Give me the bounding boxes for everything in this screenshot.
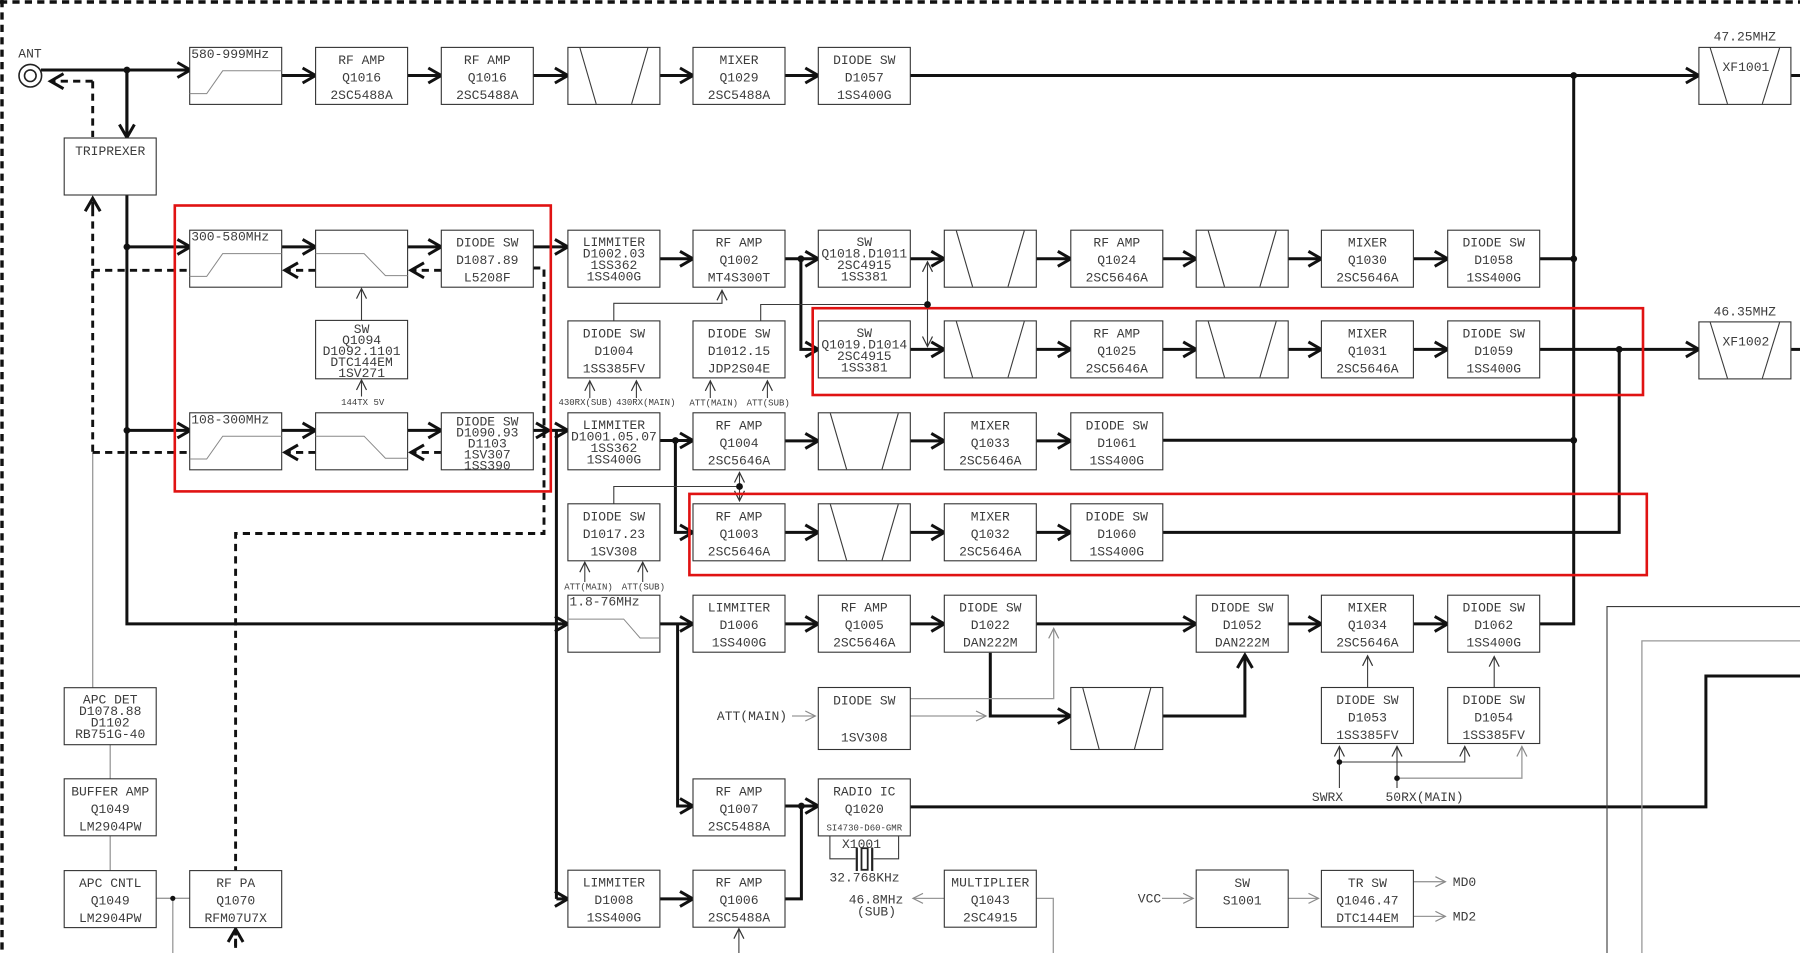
wire arrow down into TRIPREXER top: [125, 70, 128, 138]
wire BPF to MIXER Q1030: [1288, 257, 1321, 260]
wire dashed ANT return with arrow into ANT: [51, 80, 93, 83]
wire into LIMMITER D1008: [556, 897, 568, 900]
wire branch to 108-300MHz filter: [127, 429, 190, 432]
wire SWRX to D1054 left arrow: [1339, 747, 1464, 763]
svg-text:DTC144EM: DTC144EM: [1336, 911, 1398, 926]
svg-text:RF AMP: RF AMP: [464, 53, 511, 68]
wire DIODE SW D1052 to MIXER Q1034: [1288, 622, 1321, 625]
wire dashed TX return row 108-300: [93, 451, 191, 454]
block RF AMP Q1005: [818, 595, 910, 652]
block MIXER Q1034: [1321, 595, 1413, 652]
wire LIMMITER D1002 to RF AMP Q1002: [660, 257, 693, 260]
block SW Q1094: [316, 320, 408, 381]
svg-text:2SC5646A: 2SC5646A: [708, 453, 771, 468]
svg-text:SWRX: SWRX: [1312, 790, 1343, 805]
block DIODE SW D1061: [1071, 413, 1163, 470]
svg-text:2SC5646A: 2SC5646A: [1336, 636, 1399, 651]
block TR SW Q1046 Q1047: [1321, 870, 1413, 927]
svg-text:50RX(MAIN): 50RX(MAIN): [1385, 790, 1463, 805]
svg-text:RFM07U7X: RFM07U7X: [204, 911, 267, 926]
wire 144TX 5V control into SW Q1094: [361, 380, 363, 397]
wire SW Q1019 to BPF: [910, 348, 944, 351]
svg-text:Q1043: Q1043: [971, 893, 1010, 908]
svg-text:XF1002: XF1002: [1722, 334, 1769, 349]
svg-text:RF AMP: RF AMP: [716, 418, 763, 433]
wire SWRX feed line: [1338, 762, 1340, 788]
svg-text:Q1005: Q1005: [845, 618, 884, 633]
svg-text:D1058: D1058: [1474, 253, 1513, 268]
band-pass filter after Q1003: [818, 504, 910, 561]
wire XF1002 output to right edge: [1790, 348, 1800, 351]
svg-text:Q1049: Q1049: [91, 802, 130, 817]
band-pass filter after Q1024: [1196, 230, 1288, 287]
svg-text:D1062: D1062: [1474, 618, 1513, 633]
unit outline box (gray) bottom right: [1642, 641, 1800, 953]
svg-text:2SC5646A: 2SC5646A: [959, 453, 1022, 468]
svg-text:RB751G-40: RB751G-40: [75, 727, 145, 742]
svg-text:MD0: MD0: [1453, 875, 1476, 890]
wire DIODE SW D1022 to DIODE SW D1052: [1036, 622, 1196, 625]
red highlight rect front-end filters: [175, 206, 551, 492]
band-pass filter after Q1019: [944, 321, 1036, 378]
svg-text:MIXER: MIXER: [719, 53, 758, 68]
svg-text:1SS400G: 1SS400G: [1466, 361, 1521, 376]
svg-text:DAN222M: DAN222M: [1215, 636, 1270, 651]
block RF AMP Q1003: [693, 504, 785, 561]
svg-text:RF AMP: RF AMP: [716, 876, 763, 891]
svg-text:LM2904PW: LM2904PW: [79, 911, 142, 926]
block DIODE SW D1087: [441, 230, 533, 287]
svg-text:Q1003: Q1003: [719, 527, 758, 542]
junction 300-580 branch: [124, 244, 131, 251]
svg-text:430RX(MAIN): 430RX(MAIN): [616, 398, 675, 408]
wire ANT feed to 580-999MHz filter: [41, 69, 190, 72]
svg-text:DIODE SW: DIODE SW: [583, 509, 646, 524]
svg-text:DIODE SW: DIODE SW: [959, 601, 1022, 616]
svg-text:MIXER: MIXER: [1348, 236, 1387, 251]
block DIODE SW 1SV308 ATT: [818, 688, 910, 750]
svg-text:1SS385FV: 1SS385FV: [1462, 728, 1525, 743]
svg-text:1SS385FV: 1SS385FV: [583, 361, 646, 376]
wire arrow into 1.8-76MHz filter: [540, 622, 568, 625]
svg-text:MIXER: MIXER: [1348, 601, 1387, 616]
wire DIODE SW D1090 to junction: [533, 429, 549, 432]
junction SWRX: [1337, 759, 1343, 765]
filter 580-999MHz: [190, 47, 282, 105]
svg-text:TR SW: TR SW: [1348, 876, 1387, 891]
wire ATT(SUB) control arrow into D1012: [766, 381, 768, 398]
wire branch to 300-580MHz filter: [127, 245, 190, 248]
svg-text:1SS400G: 1SS400G: [1089, 453, 1144, 468]
wire MIXER Q1032 to DIODE SW D1060: [1036, 531, 1071, 534]
ANT connector symbol: [19, 64, 42, 87]
svg-text:1SS400G: 1SS400G: [712, 636, 767, 651]
wire dashed arrow up into TRIPREXER bottom: [91, 198, 94, 209]
svg-text:2SC5646A: 2SC5646A: [1086, 271, 1149, 286]
wire dashed TX return row 300-580: [93, 269, 191, 272]
wire dashed TX return LPF to 300-580 filter: [285, 269, 316, 272]
block MIXER Q1033: [944, 413, 1036, 470]
svg-text:RF AMP: RF AMP: [1093, 326, 1140, 341]
block LIMMITER D1006: [693, 595, 785, 652]
svg-text:144TX 5V: 144TX 5V: [341, 398, 385, 408]
svg-text:2SC4915: 2SC4915: [963, 911, 1018, 926]
block RF AMP Q1024: [1071, 230, 1163, 287]
wire ATT(SUB) control arrow into D1017: [642, 562, 644, 582]
block RF AMP Q1025: [1071, 321, 1163, 378]
block MIXER Q1032: [944, 504, 1036, 561]
wire dashed TX return D1090 to LPF: [411, 451, 441, 454]
svg-text:2SC5646A: 2SC5646A: [833, 636, 896, 651]
svg-text:DIODE SW: DIODE SW: [1211, 601, 1274, 616]
svg-text:RF AMP: RF AMP: [716, 509, 763, 524]
svg-text:LIMMITER: LIMMITER: [583, 876, 646, 891]
band-pass filter low band: [1071, 688, 1163, 750]
wire SWRX junction to D1053 left arrow: [1338, 747, 1340, 763]
junction 50RX(MAIN): [1394, 775, 1400, 781]
svg-text:2SC5646A: 2SC5646A: [959, 544, 1022, 559]
svg-text:300-580MHz: 300-580MHz: [191, 230, 269, 245]
svg-text:32.768KHz: 32.768KHz: [829, 871, 899, 886]
wire APC DET to BUFFER AMP: [109, 745, 111, 779]
svg-text:MULTIPLIER: MULTIPLIER: [951, 876, 1029, 891]
wire BPF up into DIODE SW D1052: [1162, 655, 1245, 716]
svg-text:ATT(SUB): ATT(SUB): [622, 583, 665, 593]
svg-text:2SC5488A: 2SC5488A: [330, 88, 393, 103]
wire LIMMITER D1008 to RF AMP Q1006: [660, 897, 693, 900]
wire RF AMP Q1016 to BPF: [533, 74, 568, 77]
wire dashed TX arrow into RF PA bottom: [234, 929, 237, 946]
wire thin arrow from page bottom into RF AMP Q1006: [738, 929, 740, 953]
svg-text:Q1016: Q1016: [468, 70, 507, 85]
junction ANT bus: [124, 67, 131, 74]
block RF AMP Q1006: [693, 870, 785, 927]
wire VCC into SW S1001: [1162, 897, 1193, 899]
svg-text:RF AMP: RF AMP: [1093, 236, 1140, 251]
wire DIODE SW D1004 control to RF AMP Q1002: [614, 290, 722, 321]
wire vertical main RX bus x=127 down to 1.8-76MHz row then right: [127, 70, 561, 624]
crystal X1001 symbol: [830, 836, 899, 871]
svg-text:DIODE SW: DIODE SW: [833, 53, 896, 68]
svg-text:DIODE SW: DIODE SW: [1462, 601, 1525, 616]
block MIXER Q1029: [693, 47, 785, 104]
wire DIODE SW D1057 to XF1001: [910, 74, 1699, 77]
wire SW S1001 to TR SW: [1288, 897, 1319, 899]
wire DIODE SW 1SV308 upper output to D1052 path: [910, 628, 1053, 698]
svg-text:XF1001: XF1001: [1722, 60, 1769, 75]
svg-text:BUFFER AMP: BUFFER AMP: [71, 784, 149, 799]
wire RF AMP Q1002 to SW Q1018: [785, 257, 819, 260]
red highlight rect RX chain Q1003/Q1032: [689, 494, 1646, 575]
svg-text:Q1025: Q1025: [1097, 344, 1136, 359]
svg-text:DIODE SW: DIODE SW: [708, 326, 771, 341]
svg-text:D1059: D1059: [1474, 344, 1513, 359]
page border (dashed top edge): [0, 0, 1800, 3]
wire RF AMP Q1003 to BPF: [785, 531, 819, 534]
junction APC CNTL output: [170, 896, 175, 901]
junction IF bus D1061: [1570, 437, 1577, 444]
wire RF AMP Q1024 to BPF: [1162, 257, 1196, 260]
svg-text:ATT(MAIN): ATT(MAIN): [564, 583, 613, 593]
block APC CNTL Q1049: [64, 871, 156, 928]
filter 108-300MHz: [190, 412, 282, 470]
wire control arrow up into RF AMP Q1004: [739, 473, 741, 487]
wire LIMMITER D1001 to RF AMP Q1004: [660, 439, 693, 442]
block APC DET D1078: [64, 688, 156, 745]
svg-text:580-999MHz: 580-999MHz: [191, 47, 269, 62]
svg-text:DIODE SW: DIODE SW: [1462, 693, 1525, 708]
wire DIODE SW 1SV308 lower output into signal corner: [910, 715, 986, 717]
wire DIODE SW D1054 up into DIODE SW D1062: [1493, 657, 1495, 688]
svg-text:DIODE SW: DIODE SW: [833, 694, 896, 709]
wire BPF to MIXER Q1031: [1288, 348, 1321, 351]
block TRIPREXER: [64, 138, 156, 195]
filter 1.8-76MHz: [568, 595, 660, 653]
svg-text:DIODE SW: DIODE SW: [1462, 236, 1525, 251]
svg-text:2SC5488A: 2SC5488A: [456, 88, 519, 103]
wire MIXER Q1034 to DIODE SW D1062: [1414, 622, 1448, 625]
svg-text:D1012.15: D1012.15: [708, 344, 770, 359]
block DIODE SW D1004: [568, 321, 660, 378]
svg-text:1SS385FV: 1SS385FV: [1336, 728, 1399, 743]
svg-text:Q1032: Q1032: [971, 527, 1010, 542]
svg-text:Q1007: Q1007: [719, 802, 758, 817]
svg-text:LM2904PW: LM2904PW: [79, 819, 142, 834]
svg-text:APC CNTL: APC CNTL: [79, 876, 141, 891]
wire dashed TX return LPF to 108-300 filter: [285, 451, 316, 454]
svg-text:ANT: ANT: [18, 47, 42, 62]
band-pass filter after Q1016: [568, 47, 660, 104]
wire dashed TX return D1087 to LPF: [411, 269, 441, 272]
block MIXER Q1030: [1321, 230, 1413, 287]
svg-text:D1057: D1057: [845, 70, 884, 85]
block RF AMP Q1002: [693, 230, 785, 287]
wire APC sample line down to APC DET: [92, 452, 94, 687]
svg-text:D1022: D1022: [971, 618, 1010, 633]
unit outline box (thin) bottom right: [1607, 607, 1800, 953]
wire DIODE SW D1053 up into MIXER Q1034: [1367, 656, 1369, 688]
block DIODE SW D1060: [1071, 504, 1163, 561]
wire DIODE SW D1059 to XF1002: [1540, 348, 1699, 351]
block DIODE SW D1059: [1448, 321, 1540, 378]
wire dashed TX path from DIODE SW D1087 down to RF PA: [236, 268, 544, 953]
wire TR SW to MD2: [1413, 915, 1445, 917]
wire junction into LIMMITER D1001: [551, 429, 568, 432]
svg-text:1SS381: 1SS381: [841, 360, 888, 375]
red highlight rect sub-band RX chain Q1019/Q1025: [813, 308, 1643, 395]
wire TR SW to MD0: [1413, 881, 1445, 883]
svg-text:SW: SW: [1234, 876, 1250, 891]
svg-text:TRIPREXER: TRIPREXER: [75, 144, 145, 159]
svg-text:Q1016: Q1016: [342, 70, 381, 85]
svg-text:1SS400G: 1SS400G: [587, 911, 642, 926]
junction IF bus D1058: [1570, 255, 1577, 262]
block MULTIPLIER Q1043: [944, 870, 1036, 927]
svg-text:1SV271: 1SV271: [338, 366, 385, 381]
svg-text:D1053: D1053: [1348, 711, 1387, 726]
block MIXER Q1031: [1321, 321, 1413, 378]
svg-text:DIODE SW: DIODE SW: [456, 236, 519, 251]
svg-text:MIXER: MIXER: [971, 509, 1010, 524]
svg-text:Q1030: Q1030: [1348, 253, 1387, 268]
block RF PA Q1070: [190, 871, 282, 928]
wire 50RX(MAIN) to D1054 right arrow: [1397, 747, 1522, 779]
svg-text:Q1006: Q1006: [719, 893, 758, 908]
block DIODE SW D1058: [1448, 230, 1540, 287]
wire SW Q1094 control up into LPF: [361, 289, 363, 321]
svg-text:DIODE SW: DIODE SW: [1086, 509, 1149, 524]
wire RF AMP Q1025 to BPF: [1162, 348, 1196, 351]
junction Q1002 output split: [798, 255, 805, 262]
svg-text:DIODE SW: DIODE SW: [1462, 326, 1525, 341]
band-pass filter after Q1004: [818, 413, 910, 470]
wire MIXER Q1033 to DIODE SW D1061: [1036, 439, 1071, 442]
wire DIODE SW D1061 to IF bus: [1162, 439, 1573, 442]
svg-text:ATT(SUB): ATT(SUB): [747, 399, 790, 409]
svg-text:2SC5488A: 2SC5488A: [708, 819, 771, 834]
svg-text:D1060: D1060: [1097, 527, 1136, 542]
wire 1.8-76MHz filter to LIMMITER D1006: [660, 622, 693, 625]
svg-text:2SC5646A: 2SC5646A: [708, 544, 771, 559]
svg-text:RF PA: RF PA: [216, 876, 255, 891]
wire LIMMITER D1006 to RF AMP Q1005: [785, 622, 819, 625]
svg-text:ATT(MAIN): ATT(MAIN): [717, 709, 787, 724]
svg-text:DAN222M: DAN222M: [963, 636, 1018, 651]
block BUFFER AMP Q1049: [64, 779, 156, 836]
svg-text:2SC5488A: 2SC5488A: [708, 88, 771, 103]
wire branch down into RF AMP Q1007: [678, 624, 693, 806]
wire BPF to RF AMP Q1024: [1036, 257, 1071, 260]
svg-text:2SC5646A: 2SC5646A: [1336, 271, 1399, 286]
svg-text:1SS400G: 1SS400G: [1466, 271, 1521, 286]
wire DIODE SW D1012 control line: [761, 305, 925, 321]
svg-text:D1004: D1004: [594, 344, 633, 359]
junction D1012 control split: [924, 301, 931, 308]
wire DIODE SW D1058 to IF bus: [1540, 257, 1574, 260]
svg-text:MIXER: MIXER: [971, 418, 1010, 433]
junction RADIO IC input: [798, 803, 805, 810]
wire MIXER Q1030 to DIODE SW D1058: [1414, 257, 1448, 260]
wire RF AMP Q1004 to BPF: [785, 439, 819, 442]
block RF AMP Q1016: [316, 47, 408, 104]
wire LPF to DIODE SW D1087: [408, 245, 442, 248]
svg-text:Q1033: Q1033: [971, 436, 1010, 451]
svg-text:ATT(MAIN): ATT(MAIN): [689, 399, 738, 409]
svg-text:Q1031: Q1031: [1348, 344, 1387, 359]
svg-text:Q1020: Q1020: [845, 802, 884, 817]
block DIODE SW D1022: [944, 595, 1036, 652]
svg-text:1SS400G: 1SS400G: [587, 270, 642, 285]
svg-text:D1006: D1006: [719, 618, 758, 633]
svg-text:1.8-76MHz: 1.8-76MHz: [569, 595, 639, 610]
wire branch down into RF AMP Q1003: [675, 441, 693, 533]
svg-text:1SS400G: 1SS400G: [1089, 544, 1144, 559]
svg-text:46.35MHZ: 46.35MHZ: [1714, 305, 1777, 320]
svg-text:Q1029: Q1029: [719, 70, 758, 85]
block DIODE SW D1054: [1448, 688, 1540, 744]
svg-text:D1052: D1052: [1223, 618, 1262, 633]
svg-text:430RX(SUB): 430RX(SUB): [558, 398, 612, 408]
wire ATT(MAIN) control arrow into D1017: [584, 562, 586, 582]
wire control arrow down into RX path: [927, 305, 929, 347]
svg-text:2SC5488A: 2SC5488A: [708, 911, 771, 926]
svg-text:S1001: S1001: [1223, 894, 1262, 909]
svg-text:MD2: MD2: [1453, 910, 1476, 925]
block LIMMITER D1001: [568, 413, 660, 470]
wire IF bus vertical x=1574 from top row to D1062 row: [1540, 76, 1574, 624]
wire BPF to MIXER Q1029: [660, 74, 693, 77]
page border (dashed left edge): [0, 0, 3, 953]
svg-text:(SUB): (SUB): [857, 905, 896, 920]
wire BPF to MIXER Q1033: [910, 439, 944, 442]
svg-text:DIODE SW: DIODE SW: [1336, 693, 1399, 708]
svg-text:1SS381: 1SS381: [841, 270, 888, 285]
block LIMMITER D1002: [568, 230, 660, 287]
svg-text:MT4S300T: MT4S300T: [708, 271, 771, 286]
svg-text:Q1070: Q1070: [216, 894, 255, 909]
wire RF AMP Q1005 to DIODE SW D1022: [910, 622, 944, 625]
wire 50RX(MAIN) feed line: [1396, 778, 1398, 788]
wire 108-300 filter to LPF: [282, 429, 316, 432]
block RF AMP Q1004: [693, 413, 785, 470]
wire DIODE SW D1022 down to low band BPF: [990, 653, 1071, 716]
svg-text:2SC5646A: 2SC5646A: [1336, 361, 1399, 376]
block RF AMP Q1016 second stage: [441, 47, 533, 104]
wire HF bus vertical x=556 down to LIMMITER D1008 row: [555, 430, 558, 899]
svg-text:RF AMP: RF AMP: [716, 236, 763, 251]
wire DIODE SW D1060 output up to XF1002 line: [1162, 349, 1619, 532]
svg-text:Q1002: Q1002: [719, 253, 758, 268]
block DIODE SW D1017: [568, 504, 660, 561]
wire control arrow up into RX path: [927, 262, 929, 305]
svg-text:D1008: D1008: [594, 893, 633, 908]
svg-text:D1087.89: D1087.89: [456, 253, 518, 268]
svg-text:SI4730-D60-GMR: SI4730-D60-GMR: [826, 823, 902, 833]
junction IF bus top: [1570, 72, 1577, 79]
svg-text:1SS400G: 1SS400G: [587, 452, 642, 467]
svg-text:1SV308: 1SV308: [841, 731, 888, 746]
wire 580-999 filter to RF AMP Q1016: [282, 74, 316, 77]
wire 46.8MHz (SUB) arrow from MULTIPLIER: [913, 897, 944, 899]
block DIODE SW D1090: [441, 413, 533, 474]
svg-text:RF AMP: RF AMP: [716, 784, 763, 799]
wire LPF to DIODE SW D1090: [408, 429, 442, 432]
block DIODE SW D1053: [1321, 688, 1413, 744]
low-pass filter 300-580 row: [316, 230, 408, 287]
block SW Q1018 D1011: [818, 230, 910, 287]
junction D1017 control split: [736, 483, 743, 490]
wire BPF to RF AMP Q1025: [1036, 348, 1071, 351]
wire RF AMP Q1007 to RADIO IC: [785, 805, 819, 808]
block DIODE SW D1057: [818, 47, 910, 104]
wire RF AMP Q1006 output up to RADIO IC input: [785, 806, 802, 899]
block DIODE SW D1052: [1196, 595, 1288, 652]
wire MIXER Q1031 to DIODE SW D1059: [1414, 348, 1448, 351]
svg-text:L5208F: L5208F: [464, 271, 511, 286]
band-pass filter after Q1025: [1196, 321, 1288, 378]
svg-text:VCC: VCC: [1138, 892, 1162, 907]
wire 430RX(MAIN) control arrow: [635, 381, 637, 398]
wire RF AMP Q1016 to RF AMP Q1016 second: [408, 74, 442, 77]
svg-text:1SS390: 1SS390: [464, 458, 511, 473]
wire 300-580 filter to LPF: [282, 245, 316, 248]
wire ATT(MAIN) control arrow into D1012: [709, 381, 711, 398]
crystal filter XF1002 46.35MHZ: [1699, 322, 1791, 379]
svg-text:DIODE SW: DIODE SW: [583, 326, 646, 341]
svg-text:2SC5646A: 2SC5646A: [1086, 361, 1149, 376]
svg-text:JDP2S04E: JDP2S04E: [708, 361, 771, 376]
junction 108-300 branch: [124, 427, 131, 434]
